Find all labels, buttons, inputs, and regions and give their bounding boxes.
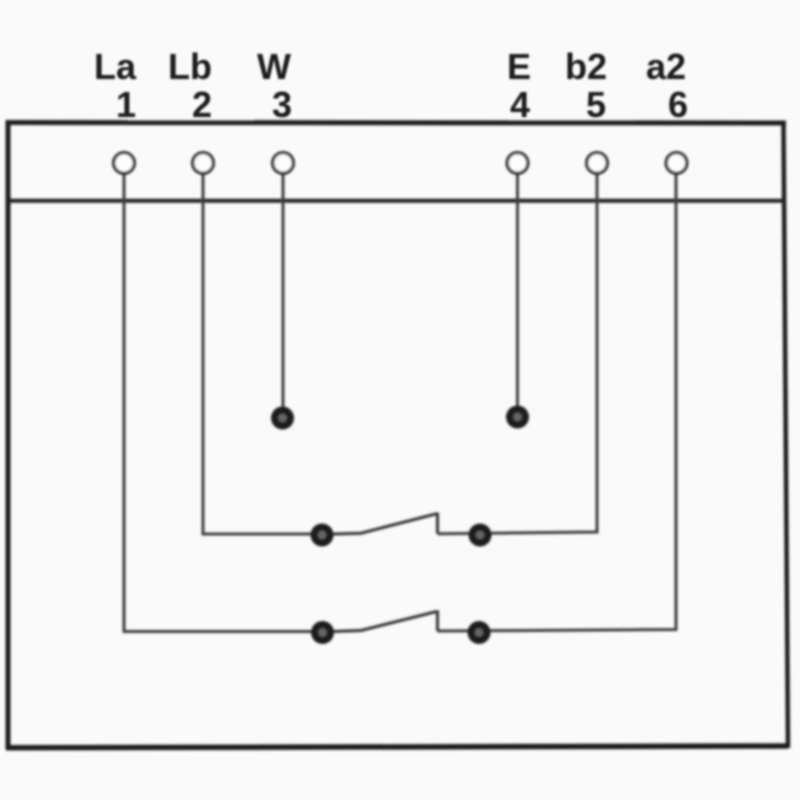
switch S1 left contact dot [311,524,334,547]
terminal block outer box left edge [6,121,11,750]
junction dot at end of E wire [506,406,529,429]
svg-text:4: 4 [510,84,530,125]
terminal block outer box bottom edge [6,746,788,748]
terminal 2 circle [193,153,214,174]
switch S1 right contact dot [469,524,492,547]
svg-text:a2: a2 [646,46,686,87]
wire from terminal 1 (La) down and right to switch 2 left contact [124,172,322,632]
terminal 1 circle [114,153,135,174]
terminal 4 circle [507,153,528,174]
junction dot at end of W wire [271,407,294,430]
svg-text:W: W [257,46,291,87]
terminal 3 circle [273,153,294,174]
switch S2 blade (between contacts at y=631.5) [324,612,438,632]
svg-text:2: 2 [192,84,212,125]
svg-text:6: 6 [668,84,688,125]
terminal 6 circle [666,153,687,174]
svg-text:La: La [94,46,137,87]
terminal block outer box right edge [784,121,789,748]
svg-text:E: E [507,46,531,87]
switch S2 left contact dot [311,621,334,644]
wire from terminal 5 (b2) down and left to switch 1 right contact [438,172,598,534]
svg-text:Lb: Lb [168,46,212,87]
svg-text:b2: b2 [565,46,607,87]
wire from terminal 6 (a2) down and left to switch 2 right contact [438,172,677,631]
svg-text:3: 3 [272,84,292,125]
wire from terminal 4 (E) down to dead-end dot [516,172,519,413]
wire from terminal 3 (W) down to dead-end dot [282,172,285,414]
switch S1 blade (between contacts at y=534) [324,514,438,534]
terminal strip divider line [6,199,786,203]
terminal block outer box top edge [6,120,787,126]
switch S2 right contact dot [468,621,491,644]
svg-text:1: 1 [116,84,136,125]
wire from terminal 2 (Lb) down and right to switch 1 left contact [203,172,322,534]
svg-text:5: 5 [586,84,606,125]
terminal 5 circle [587,153,608,174]
